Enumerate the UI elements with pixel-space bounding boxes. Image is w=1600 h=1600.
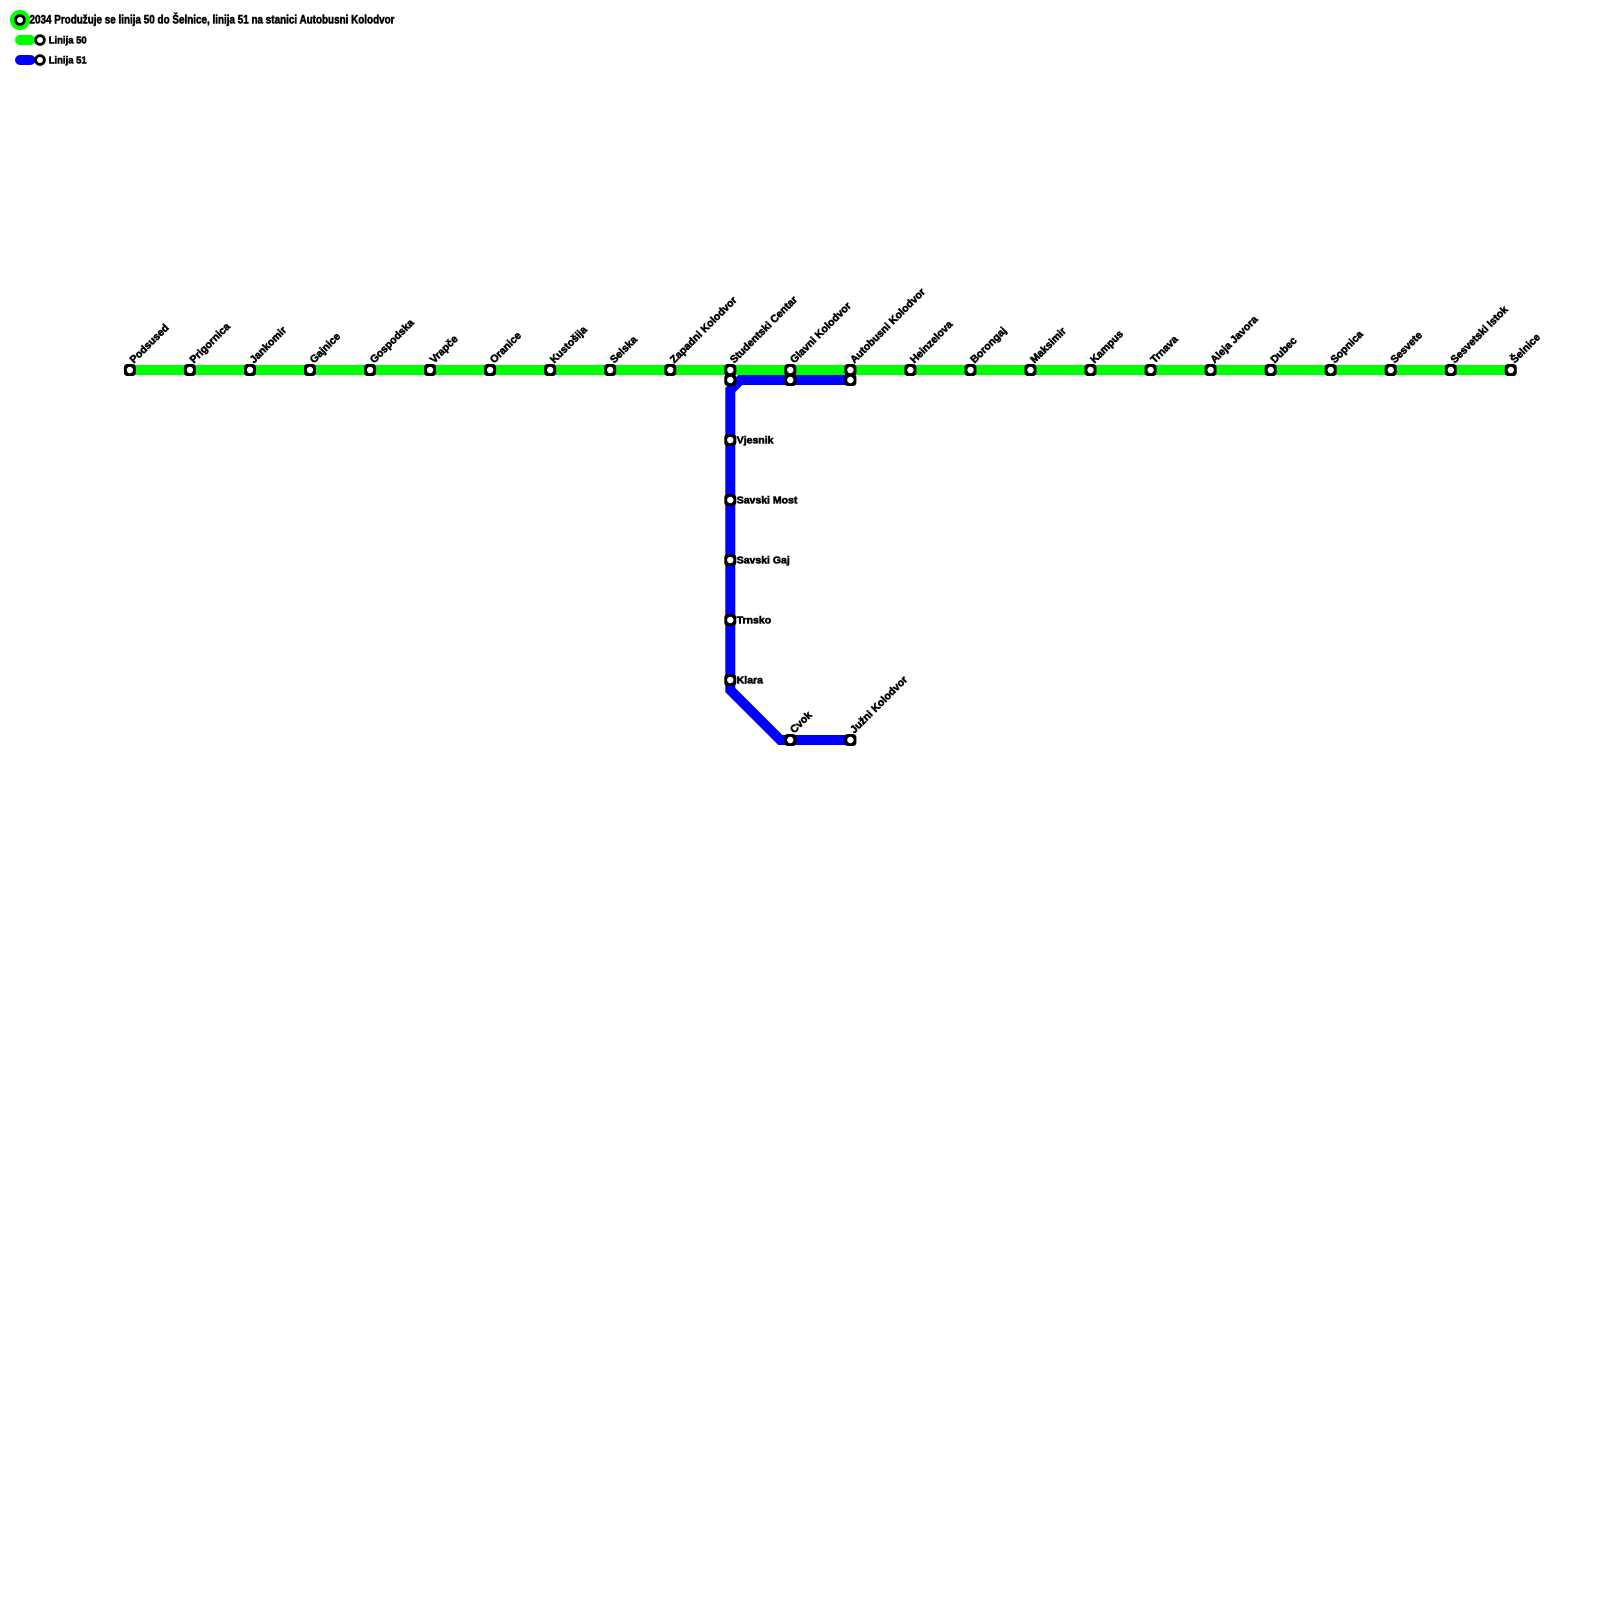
legend marker 2034 bbox=[10, 10, 30, 30]
station Glavni Kolodvor blue platform bbox=[784, 374, 796, 386]
station Savski Most bbox=[724, 494, 798, 507]
legend line Linija 50 bbox=[20, 36, 44, 45]
station Trnava bbox=[1145, 333, 1181, 376]
station Vjesnik bbox=[724, 434, 773, 447]
station Aleja Javora bbox=[1205, 314, 1261, 376]
svg-text:Vjesnik: Vjesnik bbox=[737, 435, 774, 447]
svg-text:Trnsko: Trnsko bbox=[737, 615, 771, 627]
svg-text:2034 Produžuje se linija 50 do: 2034 Produžuje se linija 50 do Šelnice, … bbox=[30, 11, 395, 26]
svg-text:Klara: Klara bbox=[737, 675, 763, 687]
station Studentski Centar blue platform bbox=[724, 374, 736, 386]
legend line Linija 51 bbox=[20, 56, 44, 65]
station Južni Kolodvor bbox=[844, 674, 910, 746]
station Maksimir bbox=[1025, 325, 1069, 376]
station Studentski Centar bbox=[724, 294, 800, 376]
station Kustošija bbox=[544, 324, 590, 376]
station Sesvetski Istok bbox=[1445, 304, 1511, 376]
svg-text:Savski Gaj: Savski Gaj bbox=[737, 555, 790, 567]
station Sesvete bbox=[1385, 329, 1425, 376]
station Selska bbox=[604, 334, 640, 376]
station Klara bbox=[724, 674, 763, 687]
station Podsused bbox=[124, 322, 172, 376]
svg-text:Linija 50: Linija 50 bbox=[49, 35, 87, 47]
blue line Linija 51 bbox=[730, 380, 850, 740]
station Sopnica bbox=[1325, 328, 1366, 376]
station Trnsko bbox=[724, 614, 771, 627]
station Borongaj bbox=[965, 325, 1010, 376]
station Prigornica bbox=[184, 321, 233, 376]
station Gospodska bbox=[364, 317, 417, 376]
station Šelnice bbox=[1505, 331, 1543, 376]
station Gajnice bbox=[304, 330, 343, 376]
svg-text:Savski Most: Savski Most bbox=[737, 495, 798, 507]
station Dubec bbox=[1265, 335, 1300, 376]
station Glavni Kolodvor bbox=[784, 300, 853, 376]
green line Linija 50 bbox=[130, 365, 1511, 375]
svg-text:Linija 51: Linija 51 bbox=[49, 55, 87, 67]
station Zapadni Kolodvor bbox=[664, 294, 739, 376]
station Savski Gaj bbox=[724, 554, 790, 567]
station Autobusni Kolodvor bbox=[844, 286, 927, 376]
station Cvok bbox=[784, 709, 814, 746]
station Autobusni Kolodvor blue platform bbox=[844, 374, 856, 386]
station Jankomir bbox=[244, 324, 289, 376]
station Vrapče bbox=[424, 333, 461, 376]
station Heinzelova bbox=[904, 319, 955, 376]
station Kampus bbox=[1085, 328, 1127, 376]
station Oranice bbox=[484, 330, 524, 376]
